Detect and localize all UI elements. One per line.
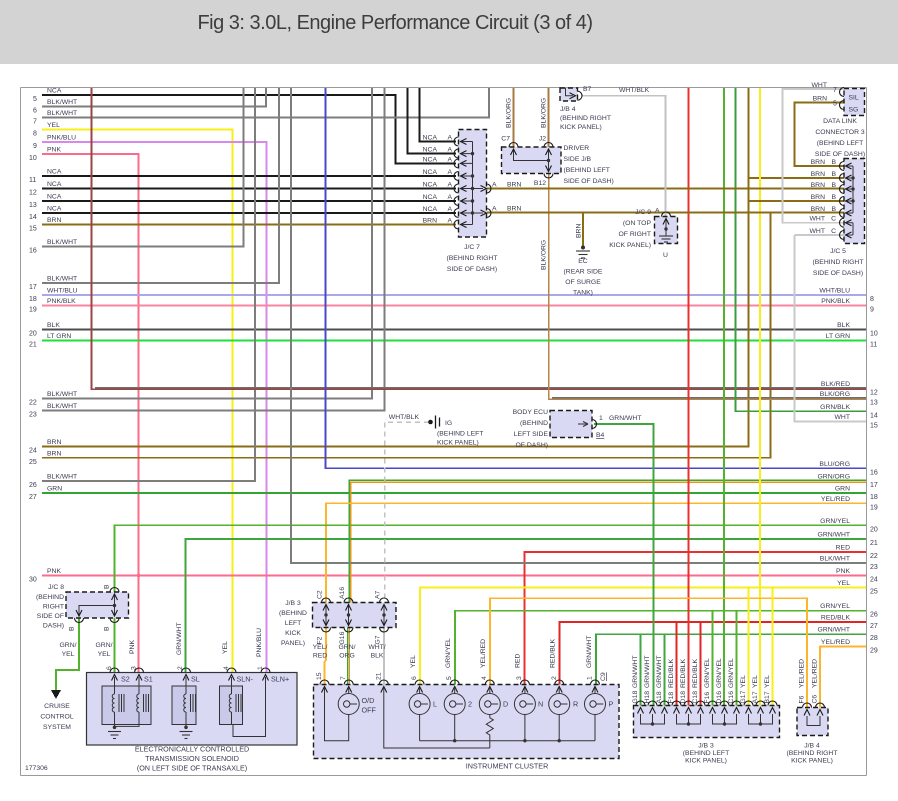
svg-text:GRN/WHT: GRN/WHT [176, 623, 183, 655]
svg-text:6: 6 [411, 676, 418, 680]
svg-text:C2: C2 [317, 590, 324, 599]
svg-text:BLK/WHT: BLK/WHT [47, 403, 77, 410]
svg-text:18: 18 [870, 494, 878, 501]
svg-text:GRN/WHT: GRN/WHT [644, 656, 651, 688]
svg-text:PNK: PNK [47, 147, 61, 154]
labels NCA A at J/C7 pins [423, 135, 453, 225]
svg-text:18: 18 [29, 296, 37, 303]
svg-text:BRN: BRN [576, 224, 583, 238]
svg-text:25: 25 [29, 459, 37, 466]
svg-text:U: U [663, 252, 668, 259]
wire BLK/ORG J2 up [548, 88, 550, 148]
svg-text:BRN: BRN [423, 218, 437, 225]
svg-text:OFF: OFF [362, 706, 377, 715]
svg-text:RIGHT: RIGHT [43, 604, 64, 611]
svg-text:YEL: YEL [752, 675, 759, 688]
label ETCS caption [135, 745, 249, 773]
wire RED/BLK F18 vertical [676, 622, 678, 706]
connector DRIVER SIDE J/B block [502, 147, 562, 174]
wire row26 BLK/WHT [29, 88, 255, 489]
svg-text:A: A [447, 182, 452, 189]
wire WHT/BLK J/B3 G7 to cluster pin21 [383, 628, 385, 685]
svg-text:TRANSMISSION SOLENOID: TRANSMISSION SOLENOID [145, 754, 239, 763]
wire BRN DLC3 SG to J/C5 B1 [795, 103, 845, 167]
wire row15 BRN [29, 217, 456, 233]
svg-text:RED/BLK: RED/BLK [668, 658, 675, 688]
svg-text:22: 22 [29, 400, 37, 407]
svg-text:BLK/ORG: BLK/ORG [506, 98, 513, 128]
svg-text:A7: A7 [375, 590, 382, 599]
svg-text:(BEHIND LEFT: (BEHIND LEFT [564, 167, 610, 174]
svg-text:10: 10 [870, 331, 878, 338]
coil S1 [115, 677, 149, 726]
svg-text:30: 30 [29, 577, 37, 584]
svg-text:F6: F6 [799, 695, 806, 703]
wire row6 BLK/WHT [33, 88, 266, 115]
label DRIVER SIDE J/B caption [564, 145, 614, 185]
svg-text:N: N [538, 700, 543, 709]
svg-text:17: 17 [29, 284, 37, 291]
svg-text:J/B 4: J/B 4 [560, 106, 576, 113]
svg-text:LT GRN: LT GRN [826, 333, 850, 340]
wire GRN/YEL J/C8 B to cruise control [56, 618, 79, 690]
wire WHT J/C5 C2 row [795, 234, 845, 236]
svg-text:15: 15 [316, 672, 323, 680]
wire GRN/YEL C16 vertical [736, 611, 738, 706]
svg-text:SIL: SIL [849, 95, 859, 102]
wire right row18 GRN number [835, 486, 878, 502]
svg-text:14: 14 [29, 214, 37, 221]
wire black top feed to J/C7 pin2 [408, 88, 457, 154]
svg-text:TANK): TANK) [573, 290, 593, 297]
svg-text:14: 14 [870, 412, 878, 419]
wire GRN/WHT A18 vertical [664, 634, 666, 706]
svg-text:25: 25 [870, 589, 878, 596]
svg-text:PNK/BLU: PNK/BLU [47, 135, 76, 142]
wire right row19 YEL/RED to J/B3 C2 [326, 496, 878, 603]
svg-text:C: C [831, 216, 836, 223]
wire row17 BLK/WHT [29, 88, 279, 291]
wire row11 NCA [29, 169, 456, 185]
svg-text:RED: RED [836, 545, 850, 552]
svg-text:BRN: BRN [47, 451, 61, 458]
svg-text:SLN-: SLN- [237, 675, 254, 684]
wire right row22 RED to cluster pin3 [525, 545, 878, 686]
J/C7 pins left [454, 137, 466, 146]
wire right row11 LT GRN number [826, 333, 878, 349]
svg-text:(BEHIND RIGHT: (BEHIND RIGHT [787, 750, 838, 757]
svg-text:BRN: BRN [811, 182, 825, 189]
wire GRN/YEL J/C8 B to S2 pin6 [114, 618, 116, 673]
svg-text:YEL/RED: YEL/RED [480, 639, 487, 668]
svg-text:28: 28 [870, 635, 878, 642]
svg-text:BRN: BRN [507, 206, 521, 213]
svg-text:J/C 9: J/C 9 [635, 209, 651, 216]
svg-text:BLK/ORG: BLK/ORG [541, 98, 548, 128]
J/C7 output pins right [481, 184, 492, 193]
svg-text:ELECTRONICALLY CONTROLLED: ELECTRONICALLY CONTROLLED [135, 745, 249, 754]
svg-text:4: 4 [481, 676, 488, 680]
wire row25 BRN to J/C5 B5 [29, 213, 771, 467]
svg-text:21: 21 [376, 672, 383, 680]
wire row18 WHT/BLU full width [29, 288, 866, 304]
svg-text:9: 9 [870, 307, 874, 314]
svg-text:YEL: YEL [764, 675, 771, 688]
svg-text:GRN/: GRN/ [96, 642, 113, 649]
svg-text:KICK PANEL): KICK PANEL) [560, 124, 602, 131]
wire row24 BRN to J/C5 B2 [29, 88, 844, 455]
svg-text:NCA: NCA [47, 169, 62, 176]
header bar [0, 0, 898, 64]
wire YEL B17 vertical [772, 588, 774, 707]
svg-text:NCA: NCA [423, 135, 438, 142]
lamp N [514, 688, 535, 741]
svg-text:BLK/ORG: BLK/ORG [541, 240, 548, 270]
svg-text:J/B 4: J/B 4 [804, 743, 820, 750]
svg-text:NCA: NCA [423, 147, 438, 154]
connector J/C8 block [66, 592, 129, 618]
svg-text:A16: A16 [339, 587, 346, 599]
svg-text:ORG: ORG [339, 653, 354, 660]
wire row30 PNK full width [29, 568, 866, 584]
svg-text:10: 10 [29, 155, 37, 162]
svg-text:SIDE OF: SIDE OF [37, 613, 64, 620]
svg-text:YEL: YEL [47, 122, 60, 129]
wire row16 BLK/WHT [29, 88, 244, 255]
svg-text:11: 11 [870, 342, 877, 349]
ground under SL [184, 726, 188, 730]
svg-text:7: 7 [33, 119, 37, 126]
svg-text:PNK/BLK: PNK/BLK [821, 298, 850, 305]
labels two-line under J/B3 top [313, 644, 386, 660]
label J/C 9 caption [609, 209, 651, 249]
label J/B 4 top caption [560, 106, 611, 131]
svg-text:11: 11 [29, 177, 36, 184]
labels J/B3 bottom pin names [632, 690, 771, 703]
svg-text:LEFT: LEFT [285, 620, 302, 627]
svg-text:NCA: NCA [423, 169, 438, 176]
svg-text:5: 5 [446, 676, 453, 680]
svg-text:A: A [655, 208, 660, 215]
svg-text:8: 8 [33, 131, 37, 138]
svg-text:RED: RED [313, 653, 327, 660]
svg-text:SIDE OF DASH): SIDE OF DASH) [447, 266, 497, 273]
svg-text:BRN: BRN [47, 217, 61, 224]
svg-text:SIDE OF DASH): SIDE OF DASH) [813, 270, 863, 277]
wire YEL/RED cluster pin4 row to J/B4 F6 [490, 598, 807, 708]
svg-text:YEL: YEL [837, 580, 850, 587]
svg-text:DATA LINK: DATA LINK [823, 118, 857, 125]
svg-text:(BEHIND: (BEHIND [520, 420, 548, 427]
coil S2 [112, 677, 124, 727]
wire BLK/ORG C7 up [513, 88, 515, 148]
svg-text:27: 27 [870, 623, 878, 630]
svg-text:13: 13 [870, 400, 878, 407]
svg-text:BLK/WHT: BLK/WHT [47, 391, 77, 398]
wire right row25 YEL to cluster pin6 [420, 580, 878, 685]
label EC caption [564, 258, 603, 297]
svg-text:WHT: WHT [810, 228, 825, 235]
svg-text:WHT: WHT [835, 414, 850, 421]
wire right row10 BLK number [837, 322, 878, 338]
svg-text:KICK: KICK [285, 630, 301, 637]
wire YEL long vertical to J/B3 A17 [759, 88, 761, 706]
arrow cruise control [51, 690, 61, 699]
svg-text:SIDE OF DASH): SIDE OF DASH) [564, 178, 614, 185]
svg-text:(REAR SIDE: (REAR SIDE [564, 269, 603, 276]
component INSTRUMENT CLUSTER box [314, 685, 620, 759]
svg-text:12: 12 [29, 190, 37, 197]
label J/C 5 caption [813, 248, 864, 277]
svg-text:NCA: NCA [47, 206, 62, 213]
svg-text:20: 20 [870, 526, 878, 533]
svg-text:15: 15 [29, 226, 37, 233]
svg-text:PANEL): PANEL) [281, 640, 305, 647]
svg-text:YEL/RED: YEL/RED [799, 659, 806, 688]
svg-text:NCA: NCA [423, 182, 438, 189]
svg-text:GRN/WHT: GRN/WHT [609, 415, 641, 422]
wire right row23 BLK/WHT [291, 88, 878, 571]
svg-text:J/B 3: J/B 3 [285, 600, 301, 607]
svg-text:19: 19 [870, 504, 878, 511]
svg-text:YEL: YEL [98, 651, 111, 658]
svg-text:(BEHIND LEFT: (BEHIND LEFT [683, 750, 729, 757]
connector J/B4 bottom block [797, 708, 828, 736]
wire row5 NCA [33, 88, 456, 164]
wire row12 NCA [29, 181, 456, 197]
svg-text:F2: F2 [317, 636, 324, 644]
svg-text:WHT/BLU: WHT/BLU [47, 288, 78, 295]
svg-text:C9: C9 [600, 672, 607, 681]
label BODY ECU caption [513, 409, 549, 449]
svg-text:(BEHIND RIGHT: (BEHIND RIGHT [560, 115, 611, 122]
svg-text:L: L [433, 700, 437, 709]
svg-text:16: 16 [29, 248, 37, 255]
svg-text:7: 7 [833, 87, 837, 94]
lamp L [409, 688, 430, 741]
wire RED/BLK C18 vertical [700, 622, 702, 706]
wire row10 PNK [29, 147, 139, 674]
wire right row27 RED/BLK to cluster pin2 [560, 615, 878, 686]
wire black top feed to J/C7 pin1 [420, 88, 457, 142]
svg-text:RED/BLK: RED/BLK [550, 638, 557, 668]
svg-text:A: A [492, 206, 497, 213]
svg-text:26: 26 [29, 482, 37, 489]
svg-text:G7: G7 [375, 635, 382, 644]
wire right row14 GRN/BLK [736, 88, 878, 419]
lamp O/D OFF [325, 688, 360, 741]
wire right row21 GRN/WHT to SL [186, 532, 878, 674]
svg-text:6: 6 [106, 666, 113, 670]
wire RED long vertical to J/B3 D18 [688, 88, 690, 706]
wire row20 BLK full width [29, 322, 866, 338]
svg-text:BLK/WHT: BLK/WHT [47, 276, 77, 283]
label J/B 3 left caption [279, 600, 307, 647]
wire WHT DLC3 SIL to J/C5 C1 [783, 89, 845, 223]
svg-text:YEL/RED: YEL/RED [812, 659, 819, 688]
svg-text:GRN/YEL: GRN/YEL [716, 658, 723, 688]
svg-text:6: 6 [33, 108, 37, 115]
svg-text:CONNECTOR 3: CONNECTOR 3 [815, 129, 865, 136]
svg-text:PNK: PNK [836, 568, 850, 575]
svg-text:(BEHIND: (BEHIND [36, 594, 64, 601]
svg-text:SL: SL [191, 675, 200, 684]
svg-text:5: 5 [33, 96, 37, 103]
svg-text:(BEHIND RIGHT: (BEHIND RIGHT [447, 255, 498, 262]
svg-text:BLU/ORG: BLU/ORG [819, 461, 850, 468]
connector DATA LINK CONNECTOR 3 block [844, 89, 865, 116]
connector J/C7 block [459, 130, 487, 238]
svg-text:23: 23 [29, 412, 37, 419]
lamp 2 [444, 688, 465, 741]
svg-text:WHT/BLK: WHT/BLK [389, 414, 420, 421]
coil SL [184, 677, 196, 727]
svg-text:EC: EC [578, 258, 588, 265]
component ETCS transmission solenoid box [87, 673, 298, 746]
svg-text:J/C 5: J/C 5 [830, 248, 846, 255]
svg-text:PNK/BLU: PNK/BLU [256, 628, 263, 657]
svg-text:BLK/WHT: BLK/WHT [47, 99, 77, 106]
svg-text:(BEHIND: (BEHIND [279, 610, 307, 617]
svg-text:(ON LEFT SIDE OF TRANSAXLE): (ON LEFT SIDE OF TRANSAXLE) [137, 764, 247, 773]
svg-text:B: B [831, 159, 836, 166]
svg-text:3: 3 [131, 666, 138, 670]
svg-text:9: 9 [33, 143, 37, 150]
svg-text:GRN/WHT: GRN/WHT [818, 627, 850, 634]
wire WHT/BLK dashed from IG fuse to J/B3 A7 [385, 422, 430, 598]
wire right row12 BLK/RED [92, 88, 878, 397]
svg-text:SYSTEM: SYSTEM [43, 724, 71, 731]
wire GRN/ORG J/B3 G16 to cluster pin7 [347, 628, 349, 685]
svg-text:BRN: BRN [813, 95, 827, 102]
svg-text:BRN: BRN [811, 206, 825, 213]
wire row14 NCA [29, 206, 456, 222]
ETCS pins [110, 668, 119, 681]
svg-text:GRN/: GRN/ [60, 642, 77, 649]
svg-text:GRN: GRN [835, 486, 850, 493]
wire right row28 GRN/WHT to cluster pin1 [596, 627, 878, 685]
svg-text:C7: C7 [501, 136, 510, 143]
svg-text:KICK PANEL): KICK PANEL) [609, 242, 651, 249]
wire row19 PNK/BLK full width [29, 298, 866, 314]
svg-text:BLK: BLK [371, 653, 384, 660]
svg-text:SIDE OF DASH): SIDE OF DASH) [815, 151, 865, 158]
svg-text:B: B [104, 584, 111, 589]
svg-text:OF RIGHT: OF RIGHT [619, 231, 651, 238]
svg-text:BODY ECU: BODY ECU [513, 409, 548, 416]
svg-text:WHT: WHT [812, 82, 827, 89]
wire row9 PNK/BLU [33, 135, 267, 674]
wire right row16 BLU/ORG [326, 88, 878, 476]
svg-text:21: 21 [870, 540, 878, 547]
svg-text:SLN+: SLN+ [271, 675, 289, 684]
svg-text:PNK/BLK: PNK/BLK [47, 298, 76, 305]
svg-text:24: 24 [29, 448, 37, 455]
svg-text:A: A [447, 206, 452, 213]
svg-text:RED/BLK: RED/BLK [821, 615, 851, 622]
svg-text:15: 15 [870, 423, 878, 430]
svg-text:C: C [831, 228, 836, 235]
wire BRN to EC ground [582, 213, 584, 249]
cluster bottom bus [420, 740, 595, 742]
wire row13 NCA [29, 194, 456, 210]
svg-text:GRN/WHT: GRN/WHT [818, 532, 850, 539]
labels GRN/YEL two-line at J/C8 outputs [60, 642, 113, 658]
wire YEL/RED J/B3 F2 to cluster pin15 [325, 628, 327, 685]
connector J/B4 top block [560, 88, 578, 101]
svg-text:WHT/BLU: WHT/BLU [819, 288, 850, 295]
label J/C 7 caption [447, 244, 498, 273]
wire GRN/YEL F16 vertical [712, 611, 714, 706]
svg-text:C6: C6 [812, 695, 819, 704]
svg-text:BLK/WHT: BLK/WHT [820, 556, 850, 563]
label J/B 3 bottom caption [683, 743, 729, 765]
svg-text:NCA: NCA [423, 206, 438, 213]
svg-text:RED/BLK: RED/BLK [680, 658, 687, 688]
svg-text:BRN: BRN [811, 171, 825, 178]
svg-text:(BEHIND LEFT: (BEHIND LEFT [437, 431, 483, 438]
wire right row24 PNK number [836, 568, 878, 584]
svg-text:NCA: NCA [423, 157, 438, 164]
svg-text:B: B [69, 626, 76, 631]
svg-text:A: A [447, 194, 452, 201]
svg-text:5: 5 [833, 101, 837, 108]
svg-text:WHT: WHT [810, 216, 825, 223]
svg-text:PNK: PNK [129, 640, 136, 654]
svg-text:GRN/YEL: GRN/YEL [728, 658, 735, 688]
ground under S2 [113, 726, 117, 730]
svg-text:YEL: YEL [222, 641, 229, 654]
svg-text:LT GRN: LT GRN [47, 333, 71, 340]
svg-text:12: 12 [870, 390, 878, 397]
svg-text:B7: B7 [583, 86, 592, 93]
svg-text:(ON TOP: (ON TOP [623, 220, 652, 227]
svg-text:1: 1 [587, 676, 594, 680]
svg-text:A: A [447, 147, 452, 154]
svg-text:SIDE J/B: SIDE J/B [564, 156, 592, 163]
svg-text:YEL/RED: YEL/RED [821, 639, 850, 646]
svg-text:16: 16 [870, 469, 878, 476]
J/C7 internal bus [462, 142, 483, 225]
svg-text:BLK: BLK [47, 322, 60, 329]
label DATA LINK CONNECTOR 3 caption [815, 118, 865, 158]
svg-text:7: 7 [340, 676, 347, 680]
svg-text:YEL/RED: YEL/RED [821, 496, 850, 503]
svg-text:BLK/WHT: BLK/WHT [47, 239, 77, 246]
svg-text:BLK/WHT: BLK/WHT [47, 110, 77, 117]
wire BRN J/C7 pin5 out to J/C5 B3 [487, 188, 844, 190]
svg-text:S1: S1 [144, 675, 153, 684]
svg-text:GRN/WHT: GRN/WHT [656, 656, 663, 688]
wire right row29 YEL/RED from J/B4 C6 [820, 639, 878, 708]
svg-text:J/C 8: J/C 8 [48, 584, 64, 591]
svg-text:(BEHIND RIGHT: (BEHIND RIGHT [813, 259, 864, 266]
svg-text:B: B [831, 206, 836, 213]
wire right row17 GRN/ORG to J/B3 A16 [349, 473, 878, 603]
svg-text:S2: S2 [121, 675, 130, 684]
svg-text:OF SURGE: OF SURGE [565, 279, 601, 286]
svg-text:GRN/YEL: GRN/YEL [445, 638, 452, 668]
svg-text:2: 2 [468, 700, 472, 709]
labels BRN B at J/C5 pins [810, 159, 837, 235]
svg-text:27: 27 [29, 494, 37, 501]
svg-text:CRUISE: CRUISE [44, 703, 70, 710]
svg-text:BLK/WHT: BLK/WHT [47, 474, 77, 481]
svg-text:OF DASH): OF DASH) [516, 442, 548, 449]
svg-text:KICK PANEL): KICK PANEL) [685, 758, 727, 765]
svg-text:NCA: NCA [47, 181, 62, 188]
label CRUISE CONTROL SYSTEM [40, 703, 73, 731]
